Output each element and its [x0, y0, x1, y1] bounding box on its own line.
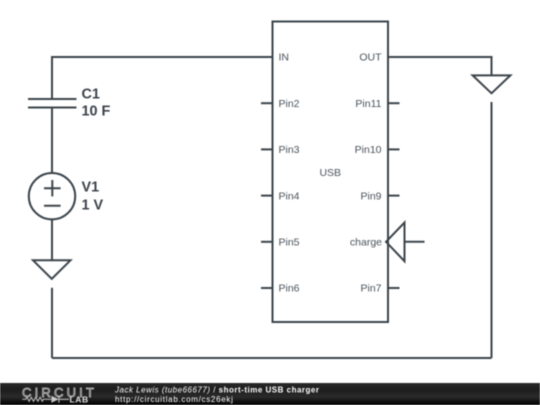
- wire C1 to V1: [51, 108, 53, 174]
- pin stub Pin2: [261, 102, 274, 104]
- svg-text:Pin7: Pin7: [360, 283, 381, 295]
- svg-text:charge: charge: [350, 237, 382, 249]
- IC U1 "USB" box outline: [273, 22, 389, 323]
- wire OUT to right ground: [388, 57, 492, 75]
- svg-text:http://circuitlab.com/cs26ekj: http://circuitlab.com/cs26ekj: [115, 395, 234, 404]
- wire bottom rail: [52, 357, 492, 359]
- pin stub Pin6: [261, 287, 274, 289]
- pin stub Pin10: [387, 148, 400, 150]
- capacitor C1: [28, 99, 77, 108]
- pin stub Pin7: [387, 287, 400, 289]
- svg-text:Pin5: Pin5: [279, 237, 300, 249]
- svg-text:Pin6: Pin6: [279, 283, 300, 295]
- ground (left): [33, 260, 71, 279]
- charge input arrow: [386, 223, 405, 262]
- svg-text:C1: C1: [82, 87, 100, 103]
- wire top-left node to IN: [52, 57, 273, 99]
- pin stub Pin5: [261, 241, 274, 243]
- wire V1 to ground: [51, 219, 53, 260]
- svg-text:LAB: LAB: [70, 394, 89, 404]
- wire charge stub: [405, 241, 425, 243]
- svg-text:Pin2: Pin2: [279, 98, 300, 110]
- svg-text:1 V: 1 V: [82, 197, 104, 213]
- wire right vertical: [491, 102, 493, 358]
- svg-text:Pin11: Pin11: [355, 98, 381, 110]
- svg-text:Pin3: Pin3: [279, 144, 300, 156]
- ground (top right): [473, 75, 511, 93]
- pin stub Pin9: [387, 195, 400, 197]
- svg-text:Pin4: Pin4: [279, 190, 300, 202]
- svg-text:OUT: OUT: [359, 52, 382, 64]
- pin stub Pin3: [261, 148, 274, 150]
- svg-text:Pin9: Pin9: [360, 190, 381, 202]
- svg-text:Jack Lewis (tube66677) / short: Jack Lewis (tube66677) / short-time USB …: [114, 386, 319, 395]
- CircuitLab logo: [22, 385, 97, 405]
- svg-text:USB: USB: [319, 167, 341, 179]
- svg-text:IN: IN: [279, 52, 290, 64]
- svg-text:Pin10: Pin10: [355, 144, 382, 156]
- voltage source V1: [29, 173, 75, 219]
- svg-text:V1: V1: [82, 179, 100, 195]
- pin stub Pin4: [261, 195, 274, 197]
- pin stub Pin11: [387, 102, 400, 104]
- wire ground to bottom rail: [51, 288, 53, 358]
- svg-text:10 F: 10 F: [82, 104, 111, 120]
